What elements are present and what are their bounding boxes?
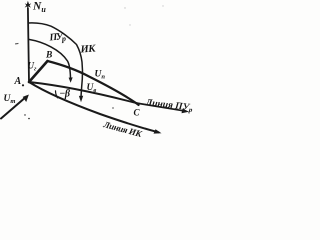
svg-text:ИК: ИК — [79, 43, 96, 55]
svg-text:A: A — [14, 76, 22, 87]
svg-text:B: B — [45, 51, 52, 61]
svg-text:C: C — [134, 108, 141, 118]
svg-text:−β: −β — [59, 89, 71, 100]
